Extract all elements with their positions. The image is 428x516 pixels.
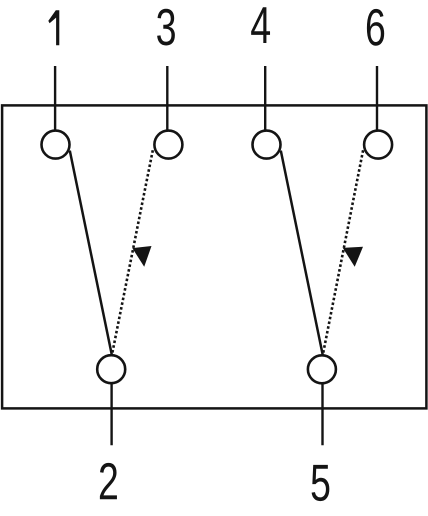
terminal circle pin 2 — [97, 355, 125, 383]
pin label 4 — [251, 7, 270, 43]
pin 6 wire — [376, 66, 378, 146]
pole 2 alternate throw (dotted 6-5) — [323, 150, 363, 355]
switch body outline — [2, 105, 426, 408]
pin 2 wire — [110, 369, 112, 445]
pin label 3 — [157, 9, 175, 46]
pole 1 alternate throw (dotted 3-2) — [112, 150, 153, 355]
terminal circle pin 6 — [364, 131, 392, 159]
pin label 6 — [367, 9, 384, 46]
pin label 5 — [312, 465, 330, 501]
pin 1 wire — [54, 66, 56, 146]
terminal circle pin 4 — [253, 131, 281, 159]
pole 1 lever (solid contact 1-2) — [70, 151, 112, 356]
actuator arrow pole 1 — [132, 246, 151, 267]
terminal circle pin 3 — [154, 131, 182, 159]
actuator arrow pole 2 — [343, 247, 363, 267]
pin 4 wire — [264, 66, 266, 146]
pin label 2 — [100, 463, 117, 499]
pin 5 wire — [321, 369, 323, 445]
pole 2 lever (solid contact 4-5) — [281, 151, 323, 356]
pin 3 wire — [166, 66, 168, 146]
terminal circle pin 5 — [308, 355, 336, 383]
pin label 1 — [48, 10, 59, 45]
terminal circle pin 1 — [42, 131, 70, 159]
